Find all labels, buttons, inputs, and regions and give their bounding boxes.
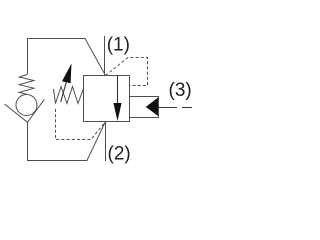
adjustment arrow head bbox=[62, 64, 72, 84]
wire top-left loop bbox=[28, 39, 106, 76]
wire bottom-left loop bbox=[28, 122, 106, 161]
check valve seat left line bbox=[5, 104, 28, 122]
svg-text:(1): (1) bbox=[107, 35, 130, 56]
pilot chamber rectangle bbox=[130, 97, 159, 118]
port (2) wire bbox=[105, 122, 107, 162]
port (3) wire bbox=[159, 107, 178, 109]
flow arrow in valve box bbox=[117, 76, 119, 105]
adjustment arrow shaft bbox=[61, 82, 67, 102]
check valve ball bbox=[16, 95, 37, 116]
valve body box bbox=[84, 76, 130, 122]
port (1) wire bbox=[104, 36, 106, 76]
pilot dashed line lower bbox=[56, 109, 106, 140]
spring S1 (check valve spring, vertical zigzag) bbox=[19, 75, 34, 95]
check valve seat right line bbox=[28, 100, 45, 123]
spring S2 (adjustable relief spring, horizontal zigzag) bbox=[54, 87, 84, 104]
pilot triangle (3) bbox=[146, 98, 158, 117]
svg-text:(2): (2) bbox=[108, 144, 131, 165]
pilot dashed line upper bbox=[106, 58, 148, 86]
port (3) wire dash bbox=[182, 107, 192, 109]
svg-text:(3): (3) bbox=[169, 80, 192, 101]
